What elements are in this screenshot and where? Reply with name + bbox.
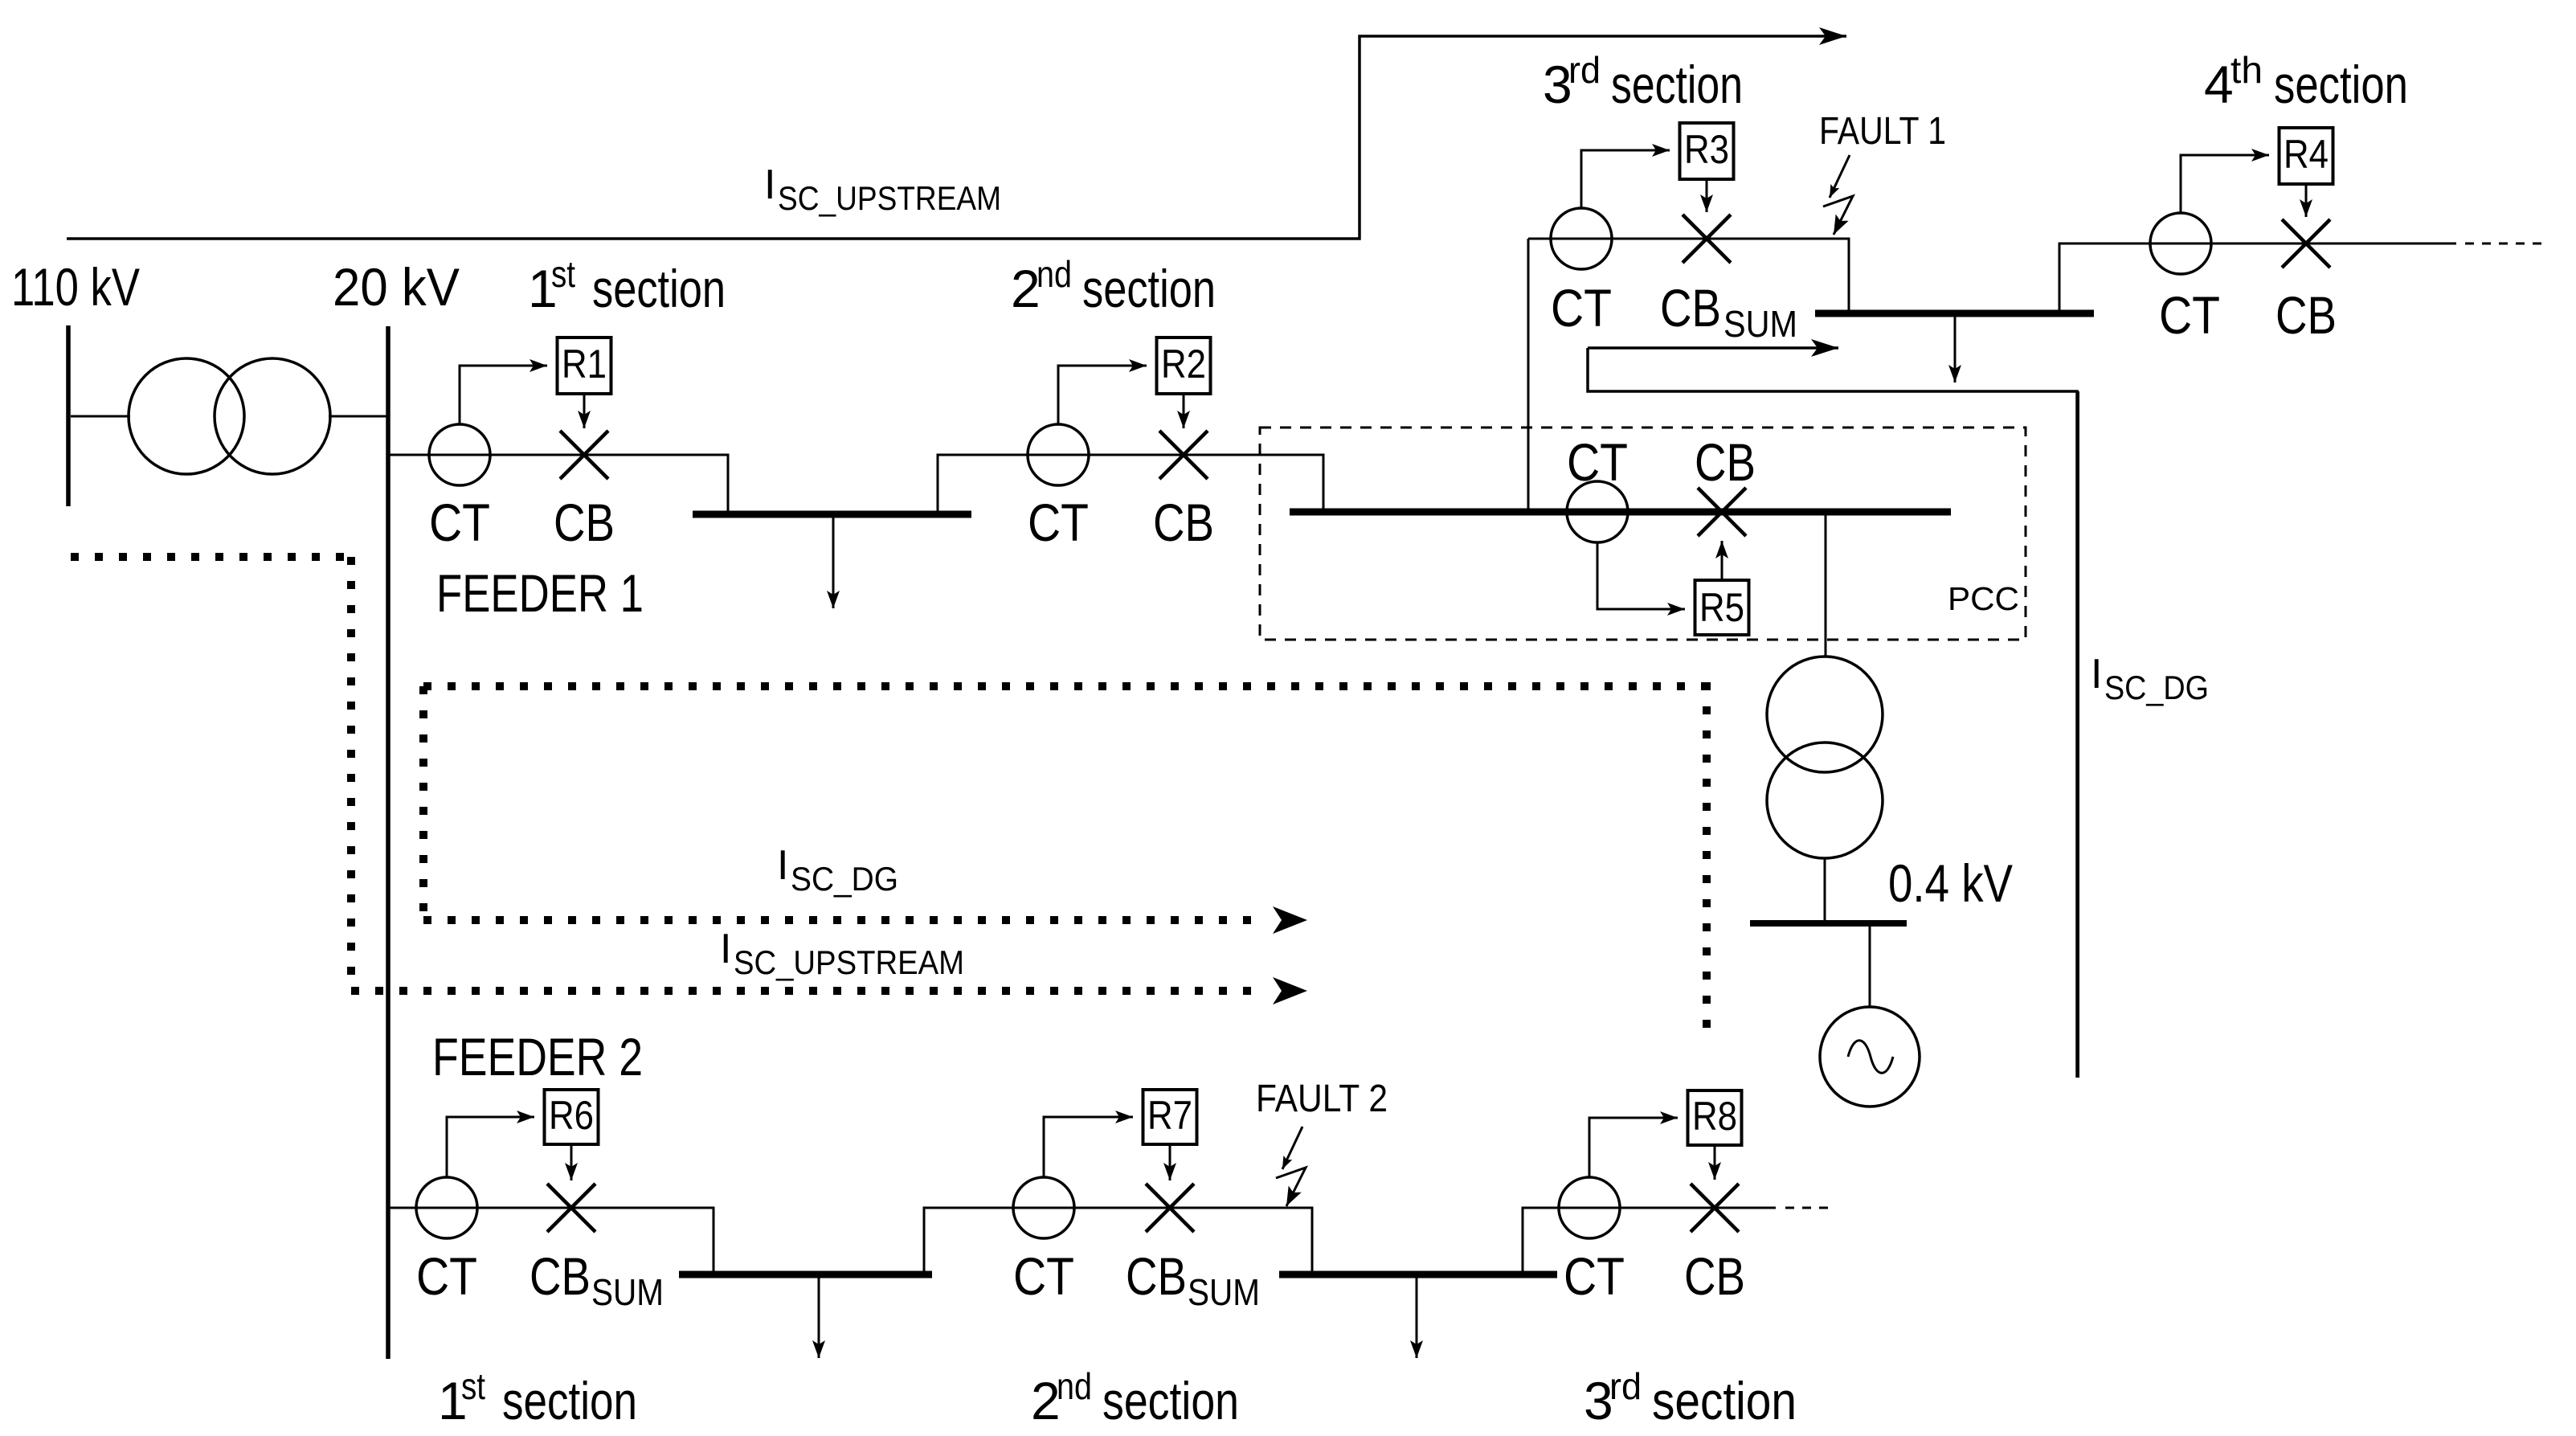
svg-text:FAULT 1: FAULT 1 xyxy=(1819,110,1946,153)
svg-text:st: st xyxy=(461,1365,485,1407)
svg-text:CT: CT xyxy=(416,1246,477,1306)
svg-text:section: section xyxy=(1652,1371,1797,1430)
svg-text:section: section xyxy=(1102,1371,1239,1430)
svg-text:SC_UPSTREAM: SC_UPSTREAM xyxy=(734,943,964,981)
svg-text:SUM: SUM xyxy=(591,1271,664,1313)
svg-text:CB: CB xyxy=(1660,278,1721,338)
svg-text:R4: R4 xyxy=(2284,132,2329,177)
svg-text:I: I xyxy=(777,842,788,889)
svg-text:section: section xyxy=(592,259,726,318)
svg-text:CB: CB xyxy=(2275,285,2337,345)
svg-text:0.4 kV: 0.4 kV xyxy=(1888,853,2013,913)
svg-text:20 kV: 20 kV xyxy=(333,257,460,317)
svg-text:th: th xyxy=(2230,49,2263,91)
svg-text:CB: CB xyxy=(1126,1246,1187,1306)
svg-text:rd: rd xyxy=(1609,1365,1642,1407)
svg-text:CB: CB xyxy=(1684,1246,1745,1306)
svg-text:SUM: SUM xyxy=(1188,1271,1260,1313)
svg-text:4: 4 xyxy=(2204,55,2234,114)
svg-text:CT: CT xyxy=(2159,285,2220,345)
svg-text:CT: CT xyxy=(1551,278,1612,338)
svg-text:R6: R6 xyxy=(549,1093,594,1138)
svg-text:nd: nd xyxy=(1057,1365,1092,1407)
svg-text:CB: CB xyxy=(554,493,615,552)
svg-text:R3: R3 xyxy=(1684,127,1729,172)
svg-text:rd: rd xyxy=(1568,49,1601,91)
svg-text:CB: CB xyxy=(1153,493,1214,552)
svg-text:SC_UPSTREAM: SC_UPSTREAM xyxy=(778,179,1001,217)
svg-text:section: section xyxy=(2274,55,2408,114)
svg-text:SC_DG: SC_DG xyxy=(791,860,898,898)
svg-text:CT: CT xyxy=(1028,493,1089,552)
svg-text:CB: CB xyxy=(530,1246,591,1306)
svg-text:R7: R7 xyxy=(1147,1093,1192,1138)
svg-text:FEEDER 1: FEEDER 1 xyxy=(436,563,644,623)
svg-text:I: I xyxy=(720,926,731,972)
svg-text:CT: CT xyxy=(1567,432,1628,492)
svg-text:CB: CB xyxy=(1695,432,1756,492)
svg-text:SC_DG: SC_DG xyxy=(2104,669,2209,706)
svg-text:st: st xyxy=(551,253,575,295)
svg-text:nd: nd xyxy=(1037,253,1072,295)
svg-text:R2: R2 xyxy=(1161,342,1206,387)
svg-text:R5: R5 xyxy=(1699,585,1744,630)
svg-text:section: section xyxy=(502,1371,637,1430)
svg-text:I: I xyxy=(764,162,775,208)
svg-text:CT: CT xyxy=(1013,1246,1074,1306)
svg-text:SUM: SUM xyxy=(1723,303,1797,345)
svg-text:section: section xyxy=(1611,55,1743,114)
svg-text:R1: R1 xyxy=(562,342,607,387)
svg-text:FAULT 2: FAULT 2 xyxy=(1256,1078,1388,1120)
svg-text:section: section xyxy=(1082,259,1216,318)
svg-text:110 kV: 110 kV xyxy=(11,257,140,317)
svg-text:PCC: PCC xyxy=(1948,580,2019,617)
svg-text:I: I xyxy=(2091,651,2102,698)
svg-text:R8: R8 xyxy=(1692,1094,1737,1139)
svg-text:CT: CT xyxy=(429,493,490,552)
svg-text:FEEDER 2: FEEDER 2 xyxy=(432,1027,643,1086)
svg-text:CT: CT xyxy=(1564,1246,1625,1306)
